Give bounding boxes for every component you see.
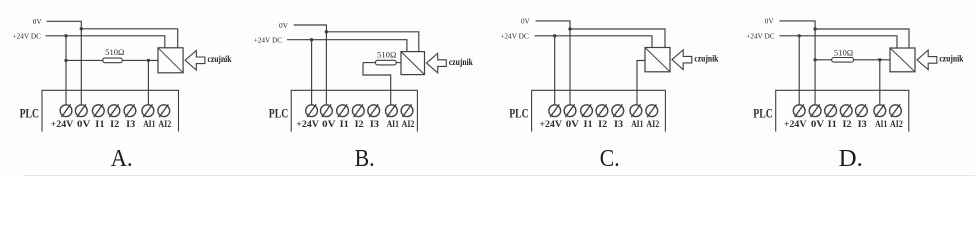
panel C: terminal AI2 <box>646 104 658 117</box>
panel D: wire +24V rail to sensor pin <box>779 36 897 48</box>
panel B: wire +24V rail to sensor pin <box>287 40 407 52</box>
panel A: sensor input arrow <box>185 51 205 71</box>
svg-text:I3: I3 <box>614 120 623 130</box>
panel D: terminal AI2 <box>890 104 902 117</box>
panel A: junction resistor line at AI1 drop <box>147 59 150 62</box>
panel A: PLC box <box>42 90 179 131</box>
panel B: terminal 0V <box>321 104 333 117</box>
panel A: terminal 0V <box>75 104 87 117</box>
svg-text:AI1: AI1 <box>387 120 399 130</box>
panel B: sensor input arrow <box>427 53 447 73</box>
panel A: wire +24V drop to terminal <box>65 36 67 105</box>
panel C: terminal I1 <box>581 104 593 117</box>
panel B: wire resistor to sensor input <box>363 62 401 64</box>
svg-text:+24V: +24V <box>296 120 319 130</box>
panel A: junction resistor line at +24V drop <box>64 59 67 62</box>
panel B: terminal +24V <box>306 104 318 117</box>
panel A: terminal I1 <box>92 104 104 117</box>
panel D: junction resistor line at AI1 drop <box>878 58 881 61</box>
panel D: PLC box <box>776 90 909 131</box>
svg-text:0V: 0V <box>566 120 580 130</box>
panel A: wire 0V branch to sensor pin <box>81 29 177 48</box>
svg-text:I3: I3 <box>858 120 867 130</box>
svg-text:AI1: AI1 <box>875 120 887 130</box>
svg-text:AI1: AI1 <box>631 120 643 130</box>
panel C: sensor box diagonal <box>645 48 670 72</box>
svg-text:PLC: PLC <box>269 106 288 121</box>
panel D: terminal I3 <box>856 104 868 117</box>
panel B: terminal I2 <box>352 104 364 117</box>
svg-text:I2: I2 <box>843 120 852 130</box>
scan artifact bottom edge <box>24 174 975 177</box>
svg-text:I2: I2 <box>110 120 119 130</box>
panel B: wire +24V drop to terminal <box>311 40 313 105</box>
svg-text:0V: 0V <box>521 17 531 26</box>
svg-text:B.: B. <box>355 145 375 172</box>
svg-text:czujnik: czujnik <box>449 58 474 68</box>
svg-text:0V: 0V <box>77 120 91 130</box>
svg-text:+24V: +24V <box>784 120 807 130</box>
panel B: wire 0V rail to 0V terminal <box>294 25 327 104</box>
panel D: wire 0V branch to sensor pin <box>815 29 909 48</box>
svg-text:AI2: AI2 <box>890 120 903 130</box>
panel B: terminal AI2 <box>401 104 413 117</box>
panel B: junction on +24V rail <box>310 38 313 41</box>
svg-text:I1: I1 <box>340 120 350 130</box>
svg-text:I3: I3 <box>126 120 135 130</box>
panel C: terminal +24V <box>549 104 561 117</box>
panel C: wire sensor output down to AI1 terminal <box>637 61 645 105</box>
panel D: terminal AI1 <box>874 104 886 117</box>
panel B: wire resistor left down and over to AI1 terminal <box>363 63 391 105</box>
svg-text:I2: I2 <box>598 120 607 130</box>
panel A: sensor transducer box UA <box>158 48 183 73</box>
panel A: junction on +24V rail <box>64 34 67 37</box>
panel A: terminal I2 <box>108 104 120 117</box>
panel C: sensor transducer box UC <box>645 48 670 72</box>
svg-text:AI1: AI1 <box>143 120 155 130</box>
panel D: sensor input arrow <box>917 50 937 70</box>
panel B: terminal I3 <box>368 104 380 117</box>
svg-text:A.: A. <box>111 145 133 172</box>
svg-text:I1: I1 <box>95 120 105 130</box>
panel D: wire drop to AI1 terminal <box>879 60 881 105</box>
panel A: terminal AI1 <box>142 104 154 117</box>
svg-text:+24V DC: +24V DC <box>746 31 775 40</box>
svg-text:AI2: AI2 <box>646 120 659 130</box>
svg-text:I1: I1 <box>584 120 594 130</box>
panel A: resistor 510 ohm body <box>103 58 123 63</box>
panel C: wire +24V rail to sensor pin <box>535 36 652 48</box>
svg-text:+24V DC: +24V DC <box>12 31 41 40</box>
svg-text:0V: 0V <box>811 120 825 130</box>
panel D: junction resistor line at 0V drop <box>813 58 816 61</box>
panel B: terminal I1 <box>337 104 349 117</box>
svg-text:+24V DC: +24V DC <box>500 31 529 40</box>
panel A: wire drop to AI1 terminal <box>147 60 149 104</box>
panel A: terminal AI2 <box>158 104 170 117</box>
svg-text:510Ω: 510Ω <box>105 47 124 57</box>
svg-text:czujnik: czujnik <box>939 55 964 65</box>
svg-text:I1: I1 <box>828 120 838 130</box>
panel D: wire +24V drop to terminal <box>798 36 800 105</box>
svg-text:+24V DC: +24V DC <box>254 35 283 44</box>
panel B: terminal AI1 <box>386 104 398 117</box>
svg-text:I2: I2 <box>355 120 364 130</box>
svg-text:I3: I3 <box>370 120 379 130</box>
panel D: junction on 0V rail <box>813 27 816 30</box>
svg-text:D.: D. <box>839 145 863 172</box>
panel D: terminal I1 <box>825 104 837 117</box>
panel D: resistor 510 ohm body <box>832 58 854 63</box>
panel A: wire +24V rail to sensor pin <box>46 36 165 48</box>
panel B: sensor box diagonal <box>401 52 425 75</box>
panel C: wire 0V branch to sensor pin <box>570 29 665 48</box>
svg-text:czujnik: czujnik <box>694 54 719 64</box>
panel A: terminal +24V <box>60 104 72 117</box>
svg-text:0V: 0V <box>279 21 289 30</box>
panel B: PLC box <box>291 90 417 131</box>
panel A: junction on 0V rail <box>80 27 83 30</box>
svg-text:czujnik: czujnik <box>208 55 233 65</box>
panel C: terminal I2 <box>596 104 608 117</box>
panel D: terminal +24V <box>793 104 805 117</box>
panel C: terminal AI1 <box>630 104 642 117</box>
svg-text:AI2: AI2 <box>158 120 171 130</box>
panel C: terminal 0V <box>564 104 576 117</box>
panel C: junction on 0V rail <box>568 27 571 30</box>
svg-text:510Ω: 510Ω <box>377 50 396 60</box>
svg-text:AI2: AI2 <box>402 120 415 130</box>
panel B: junction on 0V rail <box>325 30 328 33</box>
panel D: terminal 0V <box>809 104 821 117</box>
panel A: sensor box diagonal <box>158 48 183 73</box>
panel D: junction on +24V rail <box>798 34 801 37</box>
panel C: wire +24V drop to terminal <box>554 36 556 105</box>
panel B: resistor 510 ohm body <box>376 60 397 65</box>
panel C: terminal I3 <box>612 104 624 117</box>
panel D: wire 0V drop junction to resistor to sensor <box>815 59 890 61</box>
panel C: wire 0V rail to 0V terminal <box>536 21 570 104</box>
panel D: sensor box diagonal <box>890 48 915 72</box>
panel B: wire 0V branch to sensor pin <box>326 32 418 52</box>
panel D: terminal I2 <box>840 104 852 117</box>
panel C: junction on +24V rail <box>553 34 556 37</box>
svg-text:510Ω: 510Ω <box>834 47 853 57</box>
svg-text:PLC: PLC <box>20 106 39 121</box>
svg-text:0V: 0V <box>322 120 336 130</box>
panel A: wire 0V rail to 0V terminal <box>47 21 82 104</box>
panel A: terminal I3 <box>124 104 136 117</box>
svg-text:0V: 0V <box>765 17 775 26</box>
svg-text:+24V: +24V <box>539 120 562 130</box>
svg-text:PLC: PLC <box>509 106 528 121</box>
panel D: wire 0V rail to 0V terminal <box>779 21 815 104</box>
panel B: sensor transducer box UB <box>401 52 425 75</box>
panel D: sensor transducer box UD <box>890 48 915 72</box>
svg-text:+24V: +24V <box>51 120 74 130</box>
panel C: PLC box <box>532 90 666 131</box>
svg-text:0V: 0V <box>33 17 43 26</box>
panel C: sensor input arrow <box>672 50 692 70</box>
panel A: wire +24V junction to resistor to sensor <box>66 59 158 61</box>
svg-text:C.: C. <box>600 145 620 172</box>
svg-text:PLC: PLC <box>753 106 772 121</box>
